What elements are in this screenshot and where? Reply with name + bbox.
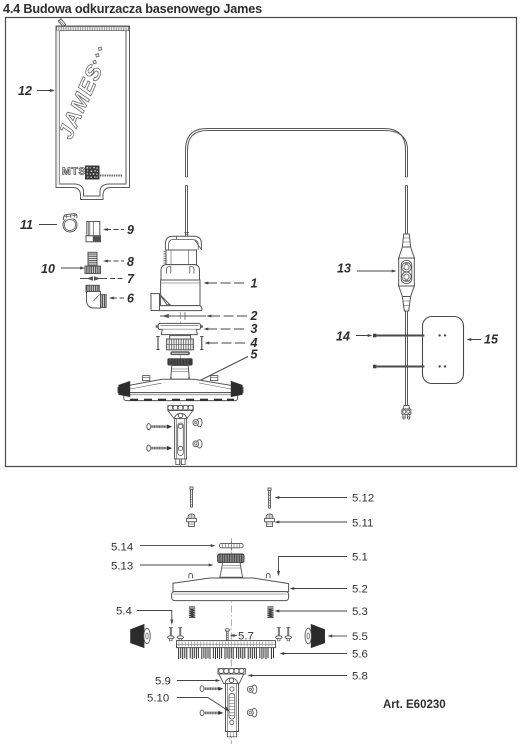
svg-text:15: 15 bbox=[484, 333, 499, 347]
gasket 2 (thin line) bbox=[160, 312, 206, 319]
cable break gaps bbox=[183, 177, 190, 186]
label 12 bbox=[18, 84, 55, 98]
svg-text:5.13: 5.13 bbox=[111, 561, 133, 573]
label 9 bbox=[103, 223, 134, 237]
label 15 bbox=[467, 333, 499, 347]
pump 1 : motor top box bbox=[163, 250, 196, 265]
svg-text:5.11: 5.11 bbox=[352, 518, 373, 530]
tube screw upper bbox=[200, 686, 223, 692]
axle pins right pair bbox=[276, 628, 292, 641]
shaft seal ring bbox=[170, 351, 190, 355]
base unit 5 : knurled collar bbox=[167, 358, 192, 365]
svg-text:5.6: 5.6 bbox=[352, 649, 368, 661]
label 5.6 bbox=[280, 649, 368, 661]
frame border of upper diagram bbox=[6, 18, 517, 467]
socket screw lower bbox=[147, 445, 172, 451]
svg-text:11: 11 bbox=[20, 218, 33, 232]
bag 12 (filter bag with JAMES print) bbox=[56, 26, 130, 200]
hanging hook at bag top bbox=[58, 19, 67, 28]
label 5.4 leader bbox=[116, 606, 173, 626]
wing nut lower right bbox=[247, 708, 257, 717]
svg-text:14: 14 bbox=[336, 330, 350, 344]
label 13 bbox=[337, 262, 397, 276]
base unit 5 : bottom dark tabs bbox=[130, 399, 234, 401]
body 5.2 main plate bbox=[173, 578, 289, 592]
screw 5.12 right bbox=[268, 488, 271, 508]
svg-text:9: 9 bbox=[127, 223, 134, 237]
svg-text:5.9: 5.9 bbox=[155, 676, 171, 688]
wing nut lower bbox=[193, 440, 202, 448]
pump base flange 3 bbox=[156, 323, 204, 334]
svg-text:5.3: 5.3 bbox=[352, 606, 368, 618]
label 11 bbox=[20, 218, 57, 232]
flat seal 7 bbox=[80, 277, 107, 280]
wing nut upper right bbox=[247, 685, 257, 694]
label 5.5 bbox=[328, 631, 368, 643]
pump 1 : main body bbox=[159, 280, 202, 311]
svg-text:1: 1 bbox=[251, 277, 258, 291]
brush bar 5.6 bbox=[177, 641, 276, 648]
elbow fitting 6 bbox=[86, 285, 106, 308]
svg-text:5.2: 5.2 bbox=[352, 584, 368, 596]
svg-text:5.5: 5.5 bbox=[352, 631, 368, 643]
lower section centerline bbox=[230, 538, 232, 744]
axle pins 5.4 left pair bbox=[168, 628, 184, 641]
svg-text:8: 8 bbox=[127, 255, 134, 269]
swivel bracket 5.8 bbox=[218, 669, 245, 684]
svg-text:5.12: 5.12 bbox=[352, 493, 374, 505]
cap nut 5.11 left bbox=[187, 514, 197, 527]
label 14 bbox=[336, 330, 373, 344]
svg-text:5.8: 5.8 bbox=[352, 671, 368, 683]
label 3 bbox=[204, 322, 258, 336]
centerline of pump axis bbox=[179, 312, 181, 466]
label 5.11 bbox=[275, 518, 374, 530]
handle tube socket bbox=[175, 419, 187, 465]
switch 13 : bottom cone bbox=[399, 286, 415, 311]
label 8 bbox=[103, 255, 134, 269]
svg-text:4.4 Budowa odkurzacza basenowe: 4.4 Budowa odkurzacza basenowego James bbox=[3, 2, 262, 16]
label 5.3 bbox=[275, 606, 368, 618]
svg-text:Art. E60230: Art. E60230 bbox=[383, 699, 446, 711]
base unit 5 : bottom band bbox=[124, 393, 238, 401]
label 5.12 bbox=[275, 493, 375, 505]
label 4 bbox=[205, 336, 258, 350]
steering bracket below base bbox=[168, 405, 193, 418]
handle tube 5.9/5.10 bbox=[226, 684, 239, 737]
label 5.1 leader bbox=[277, 552, 368, 577]
body 5.2 bottom band bbox=[172, 592, 289, 601]
rod 14 upper bbox=[373, 334, 424, 338]
threaded adapter 8 / 10 bbox=[85, 252, 101, 273]
svg-text:5: 5 bbox=[251, 348, 259, 362]
small squares decoration on bag bbox=[91, 47, 102, 75]
label 5.10 bbox=[147, 693, 230, 713]
screw 5.12 left bbox=[190, 487, 193, 507]
pump 1 : handle bbox=[165, 233, 201, 251]
base unit 5 : right wheel bbox=[231, 381, 242, 396]
svg-text:13: 13 bbox=[337, 262, 351, 276]
svg-text:12: 12 bbox=[18, 84, 32, 98]
switch 13 : body with buttons bbox=[399, 258, 415, 286]
base unit 5 : neck bbox=[171, 366, 190, 380]
cable below switch bbox=[406, 311, 408, 406]
impeller 4 bbox=[167, 336, 194, 350]
svg-text:5.10: 5.10 bbox=[147, 693, 169, 705]
svg-text:MTS: MTS bbox=[62, 166, 86, 178]
pump 1 : shoulder section with clips bbox=[161, 265, 200, 280]
body 5.2 top tabs bbox=[189, 573, 270, 578]
MTS logo block on bag bbox=[62, 166, 122, 180]
cap nut 5.11 right bbox=[265, 514, 275, 527]
svg-text:5.1: 5.1 bbox=[352, 552, 368, 564]
socket screw upper bbox=[147, 424, 172, 430]
spring 5.3 right bbox=[267, 607, 273, 617]
impeller 4 flanking brackets bbox=[156, 337, 203, 350]
screw 5.7 bbox=[225, 629, 229, 642]
label 7 bbox=[110, 272, 135, 286]
mains plug bbox=[402, 406, 411, 420]
tube screw lower bbox=[200, 710, 223, 716]
hose fitting 9 bbox=[86, 222, 101, 242]
rod 14 lower bbox=[373, 365, 424, 369]
wing nut upper bbox=[193, 418, 202, 426]
svg-text:5.14: 5.14 bbox=[111, 542, 133, 554]
label 5.2 bbox=[290, 584, 368, 596]
svg-text:6: 6 bbox=[127, 292, 135, 306]
base unit 5 : left wheel bbox=[119, 381, 130, 396]
svg-text:5.4: 5.4 bbox=[116, 606, 132, 618]
remote float 15 bbox=[423, 317, 464, 384]
base unit 5 : top cap bolts bbox=[143, 376, 218, 381]
base unit 5 : main plate bbox=[118, 379, 243, 392]
label 5.8 bbox=[248, 671, 368, 683]
threaded neck of 5.2 bbox=[219, 563, 243, 578]
hose clamp 11 bbox=[63, 214, 77, 232]
label 1 bbox=[204, 277, 258, 291]
axle pin 5.14 bbox=[220, 541, 244, 551]
svg-text:7: 7 bbox=[127, 272, 135, 286]
svg-text:2: 2 bbox=[250, 309, 258, 323]
spring 5.3 left bbox=[189, 607, 195, 617]
label 10 bbox=[41, 262, 85, 276]
label 2 bbox=[207, 309, 258, 323]
power cable loop bbox=[186, 129, 408, 237]
label 5.7 bbox=[230, 631, 254, 643]
wheel 5.5 right bbox=[305, 624, 325, 647]
svg-text:3: 3 bbox=[251, 322, 258, 336]
label 5.13 bbox=[111, 561, 214, 573]
label 5 bbox=[196, 348, 259, 383]
wheel 5.5 left bbox=[131, 624, 151, 647]
pump 1 : outlet spout bbox=[151, 294, 170, 311]
label 5.14 bbox=[111, 542, 216, 554]
switch 13 : top strain relief bbox=[399, 234, 415, 258]
svg-text:10: 10 bbox=[41, 262, 55, 276]
brush bristles bbox=[179, 648, 274, 659]
knurled cap 5.13 bbox=[218, 554, 244, 563]
label 6 bbox=[109, 292, 135, 306]
label 5.9 bbox=[155, 676, 221, 688]
